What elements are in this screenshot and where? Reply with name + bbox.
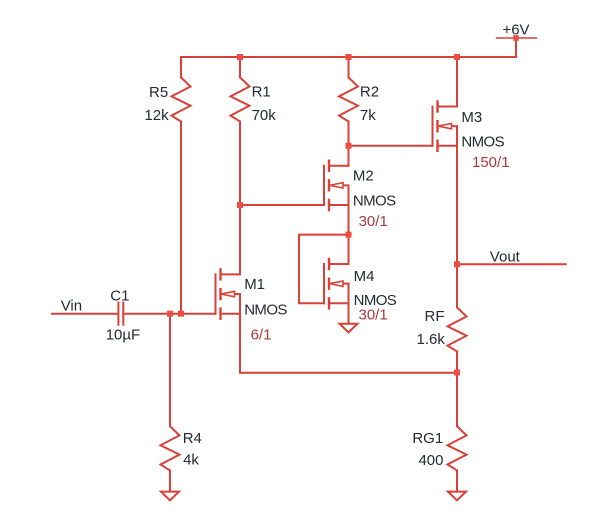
resistor R2 <box>339 57 358 122</box>
ground under R4 <box>161 492 179 501</box>
svg-text:150/1: 150/1 <box>472 154 510 171</box>
resistor RG1 <box>448 373 467 492</box>
transistor M1 <box>216 269 241 318</box>
node: rail/R1 junction <box>237 54 243 60</box>
transistor M3 <box>433 102 458 151</box>
wire: M2 drain to R2 node <box>348 146 350 166</box>
capacitor C1 <box>118 303 123 325</box>
node: R1/M1 drain/M2 gate junction <box>237 202 243 208</box>
svg-text:NMOS: NMOS <box>353 192 396 209</box>
wire: M2 source to M4 drain node <box>348 205 350 235</box>
transistor M4 <box>324 259 349 308</box>
svg-text:1.6k: 1.6k <box>417 331 446 348</box>
wire: M1 drain from R1/M2 node <box>239 205 241 274</box>
node: Vout junction <box>454 261 460 267</box>
svg-text:7k: 7k <box>360 107 376 124</box>
svg-text:12k: 12k <box>144 107 169 124</box>
wire: R1 bottom to M1 drain node <box>239 122 241 206</box>
svg-text:10µF: 10µF <box>106 326 141 343</box>
node: R5/input junction <box>178 311 184 317</box>
wire: M4 source to ground <box>348 303 350 323</box>
svg-text:R2: R2 <box>360 84 379 101</box>
svg-text:400: 400 <box>418 452 443 469</box>
ground under RG1 <box>448 492 466 501</box>
svg-text:NMOS: NMOS <box>244 302 287 319</box>
svg-text:M4: M4 <box>354 268 375 285</box>
svg-text:30/1: 30/1 <box>359 213 388 230</box>
transistor M2 <box>324 161 349 210</box>
node: R4/input junction <box>167 311 173 317</box>
wire: M4 gate feedback loop <box>299 235 349 304</box>
wire: C1 to M1 gate <box>123 313 215 315</box>
wire: M3 source to Vout node <box>456 146 458 264</box>
svg-text:Vin: Vin <box>61 298 82 315</box>
svg-text:M1: M1 <box>244 276 265 293</box>
svg-text:M3: M3 <box>461 109 482 126</box>
svg-text:NMOS: NMOS <box>461 134 504 151</box>
svg-text:C1: C1 <box>110 287 129 304</box>
+6V power flag <box>497 35 537 57</box>
ground under M4 <box>340 324 358 333</box>
svg-text:R1: R1 <box>252 84 271 101</box>
svg-text:70k: 70k <box>252 107 277 124</box>
wire: M4 drain <box>348 235 350 264</box>
wire: M2 gate to R1/M1 node <box>240 204 324 206</box>
svg-text:R4: R4 <box>183 430 202 447</box>
resistor RF <box>448 264 467 372</box>
resistor R5 <box>172 57 191 122</box>
svg-text:RF: RF <box>425 308 445 325</box>
wire: Vin input <box>52 313 117 315</box>
resistor R1 <box>231 57 250 122</box>
wire: Vout output <box>457 263 566 265</box>
node: rail/R2 junction <box>346 54 352 60</box>
wire: R2 bottom to M3 gate node <box>348 122 350 146</box>
node: M2 source/M4 junction <box>346 232 352 238</box>
node: R2/M2 drain/M3 gate junction <box>346 143 352 149</box>
wire: M3 gate to R2 node <box>349 145 433 147</box>
svg-text:Vout: Vout <box>490 249 521 266</box>
node: RF/RG1 feedback junction <box>454 370 460 376</box>
wire: rail to M3 drain <box>456 57 458 107</box>
svg-text:R5: R5 <box>149 84 168 101</box>
svg-text:RG1: RG1 <box>412 430 443 447</box>
node: rail/M3 junction <box>454 54 460 60</box>
wire: R4 top <box>169 314 171 427</box>
svg-text:6/1: 6/1 <box>251 326 272 343</box>
svg-text:30/1: 30/1 <box>359 307 388 324</box>
wire: R5 bottom to input node <box>180 122 182 314</box>
svg-text:+6V: +6V <box>502 22 529 39</box>
resistor R4 <box>161 426 180 491</box>
wire: M1 source down and across to feedback node <box>240 314 457 373</box>
svg-text:4k: 4k <box>183 451 199 468</box>
svg-text:M2: M2 <box>353 168 374 185</box>
wire: top supply rail <box>181 56 516 58</box>
